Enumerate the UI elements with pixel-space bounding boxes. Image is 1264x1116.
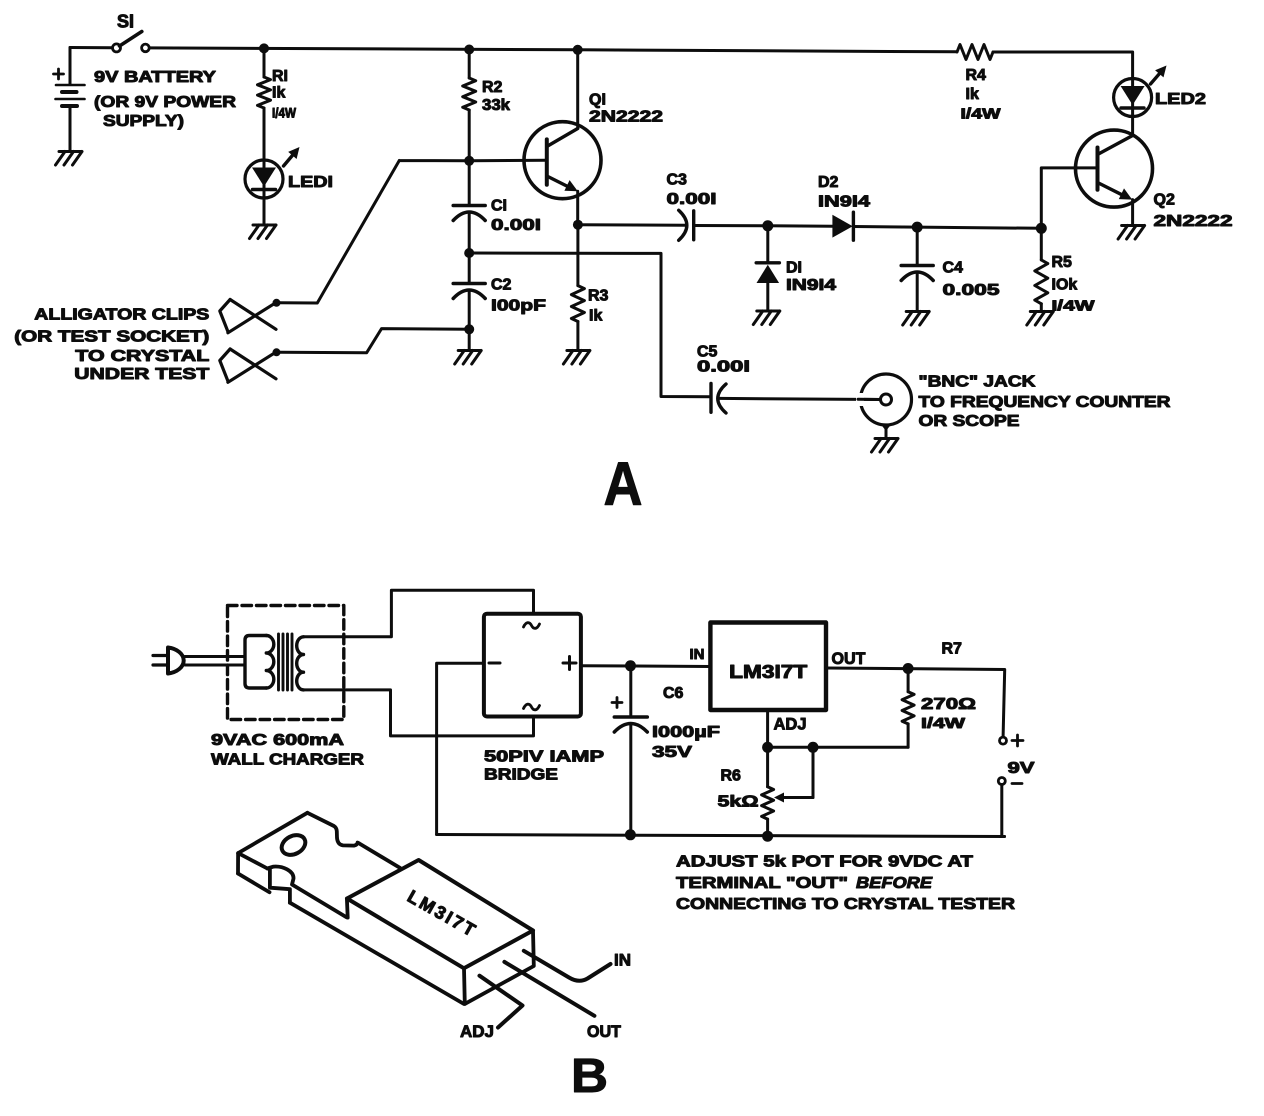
svg-text:Ik: Ik bbox=[966, 86, 979, 103]
LED2 emission arrow bbox=[1151, 66, 1167, 85]
svg-text:LEDI: LEDI bbox=[288, 174, 333, 191]
alligator clip 1 bbox=[220, 299, 281, 333]
bridge minus terminal bbox=[489, 662, 500, 665]
label alligator clips bbox=[14, 307, 209, 384]
wire LED2 to Q2 bbox=[1131, 117, 1134, 136]
label LED1 bbox=[288, 174, 333, 191]
svg-text:R4: R4 bbox=[966, 67, 987, 84]
capacitor C3 bbox=[679, 210, 694, 240]
wire clip2 to C2 node bbox=[280, 329, 470, 353]
ground (Q2) bbox=[1118, 226, 1145, 240]
junction (wiper node) bbox=[808, 742, 819, 753]
wire bottom rail bbox=[437, 835, 1005, 837]
switch S1 bbox=[113, 32, 150, 52]
bridge AC symbol bottom bbox=[524, 704, 540, 710]
capacitor C6 bbox=[614, 666, 647, 834]
transformer primary winding bbox=[245, 636, 274, 689]
svg-text:I00pF: I00pF bbox=[491, 298, 546, 315]
svg-text:UNDER TEST: UNDER TEST bbox=[74, 366, 209, 383]
package lead OUT bbox=[504, 962, 594, 1016]
wire Q2 base bbox=[1041, 168, 1097, 228]
package body bbox=[347, 860, 534, 1004]
label ADJ bbox=[774, 715, 807, 734]
wire secondary top to bridge bbox=[304, 590, 534, 637]
potentiometer R6 bbox=[762, 747, 774, 836]
svg-text:TO FREQUENCY COUNTER: TO FREQUENCY COUNTER bbox=[919, 394, 1172, 411]
ground (C2) bbox=[455, 351, 482, 365]
svg-text:9VAC 600mA: 9VAC 600mA bbox=[211, 732, 345, 749]
svg-text:"BNC" JACK: "BNC" JACK bbox=[919, 374, 1037, 391]
svg-text:WALL CHARGER: WALL CHARGER bbox=[211, 752, 365, 769]
wire base node to Q1 base bbox=[469, 159, 547, 163]
svg-text:TO CRYSTAL: TO CRYSTAL bbox=[75, 348, 209, 365]
wire D2 to C4 node bbox=[853, 225, 917, 229]
ground (C4) bbox=[903, 312, 930, 326]
capacitor C2 bbox=[453, 253, 485, 329]
label LED2 bbox=[1155, 91, 1206, 108]
label D2 bbox=[818, 174, 870, 211]
svg-text:CONNECTING TO CRYSTAL TESTER: CONNECTING TO CRYSTAL TESTER bbox=[676, 896, 1016, 913]
ground (BNC) bbox=[872, 439, 899, 453]
resistor R2 bbox=[463, 78, 476, 110]
wire C3 to D1 node bbox=[694, 224, 768, 227]
svg-text:Ik: Ik bbox=[272, 85, 285, 102]
wire cord bbox=[185, 657, 245, 666]
svg-text:CI: CI bbox=[491, 198, 507, 215]
wire battery to switch bbox=[70, 46, 112, 49]
package lead ADJ bbox=[480, 976, 523, 1028]
dashed enclosure (wall charger) bbox=[228, 606, 344, 720]
svg-text:(OR TEST SOCKET): (OR TEST SOCKET) bbox=[14, 329, 209, 346]
svg-text:OUT: OUT bbox=[587, 1022, 622, 1041]
junction (C4 node) bbox=[912, 222, 923, 233]
package tab outline bbox=[238, 813, 464, 1004]
resistor R1 bbox=[258, 77, 271, 108]
svg-text:SI: SI bbox=[117, 12, 134, 32]
wire LED1 to ground bbox=[263, 198, 266, 225]
battery plus label bbox=[54, 69, 64, 79]
svg-text:0.00I: 0.00I bbox=[491, 217, 541, 234]
svg-text:I/4W: I/4W bbox=[921, 715, 966, 732]
label C5 bbox=[697, 344, 750, 376]
ground (R5) bbox=[1027, 312, 1054, 326]
label C6 bbox=[652, 685, 720, 761]
capacitor C5 bbox=[711, 384, 726, 414]
svg-text:IN9I4: IN9I4 bbox=[818, 194, 870, 211]
label section B bbox=[571, 1050, 608, 1103]
LED LED2 bbox=[1114, 79, 1152, 117]
bridge AC symbol top bbox=[524, 623, 540, 629]
capacitor C1 bbox=[453, 161, 485, 253]
label R2 bbox=[482, 79, 510, 114]
resistor R7 bbox=[902, 669, 914, 748]
wire C5 to BNC bbox=[719, 398, 881, 399]
svg-text:IN: IN bbox=[690, 646, 705, 663]
resistor R5 bbox=[1035, 228, 1048, 311]
LED LED1 bbox=[245, 160, 283, 198]
svg-text:OR SCOPE: OR SCOPE bbox=[919, 413, 1020, 430]
junction (R7 top) bbox=[903, 663, 914, 674]
svg-text:LED2: LED2 bbox=[1155, 91, 1206, 108]
svg-text:270Ω: 270Ω bbox=[921, 696, 976, 713]
svg-text:0.00I: 0.00I bbox=[697, 359, 750, 376]
label Q2 bbox=[1154, 192, 1233, 231]
resistor R3 bbox=[571, 225, 584, 350]
junction (Q1 emitter node) bbox=[573, 220, 583, 230]
capacitor C4 bbox=[901, 227, 933, 311]
svg-text:DI: DI bbox=[786, 260, 802, 277]
ground (R3) bbox=[563, 351, 590, 365]
alligator clip 2 bbox=[220, 348, 281, 382]
svg-text:SUPPLY): SUPPLY) bbox=[103, 113, 184, 130]
label LM317T bbox=[729, 662, 807, 682]
diode D2 bbox=[832, 212, 853, 240]
wire R1 top bbox=[263, 48, 266, 77]
svg-text:RI: RI bbox=[272, 68, 288, 85]
svg-text:OUT: OUT bbox=[832, 649, 867, 668]
wire OUT bbox=[826, 668, 1005, 741]
ground (battery) bbox=[56, 152, 83, 166]
label R6 bbox=[718, 768, 759, 811]
wire ADJ line bbox=[768, 746, 909, 749]
svg-text:ALLIGATOR CLIPS: ALLIGATOR CLIPS bbox=[34, 307, 209, 324]
junction (R6 bottom) bbox=[762, 831, 773, 842]
ground (LED1) bbox=[250, 225, 277, 239]
wire bridge plus to IN bbox=[581, 664, 711, 668]
wire Q2 emitter to ground bbox=[1131, 200, 1134, 225]
label BNC bbox=[919, 374, 1172, 431]
junction (C1-C2 node) bbox=[464, 248, 474, 258]
junction (Q1 collector top) bbox=[573, 45, 583, 55]
svg-text:TERMINAL "OUT": TERMINAL "OUT" bbox=[676, 875, 848, 892]
terminal minus bbox=[998, 778, 1005, 785]
package lead IN bbox=[524, 951, 611, 981]
svg-text:A: A bbox=[604, 450, 643, 518]
ground (D1) bbox=[753, 311, 780, 325]
svg-text:0.005: 0.005 bbox=[943, 282, 1000, 299]
BNC jack J1 bbox=[856, 374, 912, 438]
R6 wiper bbox=[774, 747, 813, 802]
svg-text:35V: 35V bbox=[652, 744, 692, 761]
junction (D1 node) bbox=[762, 220, 773, 231]
label R3 bbox=[588, 288, 609, 325]
wire ADJ bbox=[766, 710, 769, 747]
label S1 bbox=[117, 12, 134, 32]
svg-text:C6: C6 bbox=[663, 685, 684, 702]
svg-text:D2: D2 bbox=[818, 174, 839, 191]
wire R2 to base node bbox=[468, 110, 471, 161]
svg-text:9V: 9V bbox=[1008, 760, 1035, 777]
label wall charger bbox=[211, 732, 365, 769]
LED1 emission arrow bbox=[284, 147, 300, 166]
wire C2 to ground bbox=[468, 329, 471, 350]
junction (R5 node) bbox=[1036, 223, 1047, 234]
svg-text:ADJ: ADJ bbox=[460, 1022, 494, 1041]
wire C4 node to R5 node bbox=[917, 227, 1041, 228]
wire secondary bottom to bridge bbox=[304, 690, 534, 736]
wire R1 to LED1 bbox=[263, 108, 266, 161]
label package OUT bbox=[587, 1022, 622, 1041]
svg-text:R6: R6 bbox=[721, 768, 742, 785]
transistor Q2 bbox=[1076, 130, 1153, 207]
label C3 bbox=[667, 172, 717, 209]
svg-text:IOk: IOk bbox=[1052, 277, 1078, 294]
wire R4 to LED2 bbox=[993, 52, 1133, 79]
svg-text:(OR 9V POWER: (OR 9V POWER bbox=[94, 94, 237, 111]
wire D1 node to D2 bbox=[768, 224, 833, 227]
label minus bbox=[1012, 782, 1022, 785]
wire minus to rail bbox=[1002, 785, 1005, 837]
svg-text:C3: C3 bbox=[667, 172, 688, 189]
svg-text:R7: R7 bbox=[942, 641, 963, 658]
bridge rectifier BR1 bbox=[484, 614, 581, 717]
svg-text:LM3I7T: LM3I7T bbox=[729, 662, 807, 682]
svg-text:I/4W: I/4W bbox=[961, 106, 1002, 123]
svg-text:2N2222: 2N2222 bbox=[589, 109, 663, 126]
label C2 bbox=[491, 277, 546, 315]
package tab notch bbox=[267, 867, 346, 918]
label bridge bbox=[484, 749, 604, 784]
note adjust bbox=[676, 854, 1016, 914]
diode D1 bbox=[756, 226, 779, 311]
label package IN bbox=[614, 951, 631, 970]
label IN bbox=[690, 646, 705, 663]
svg-text:B: B bbox=[571, 1050, 608, 1103]
svg-text:ADJUST 5k POT FOR 9VDC AT: ADJUST 5k POT FOR 9VDC AT bbox=[676, 854, 973, 871]
svg-text:50PIV IAMP: 50PIV IAMP bbox=[484, 749, 604, 766]
svg-text:33k: 33k bbox=[482, 97, 510, 114]
bridge plus terminal bbox=[563, 657, 576, 670]
label C4 bbox=[943, 260, 1000, 300]
resistor R4 bbox=[957, 45, 993, 60]
svg-text:IN: IN bbox=[614, 951, 631, 970]
wire top rail bbox=[150, 48, 958, 52]
svg-text:5kΩ: 5kΩ bbox=[718, 794, 759, 811]
transformer core bbox=[279, 634, 293, 690]
svg-text:I/4W: I/4W bbox=[272, 105, 297, 121]
svg-text:C2: C2 bbox=[491, 277, 512, 294]
label C1 bbox=[491, 198, 541, 235]
label plus bbox=[1012, 735, 1023, 746]
svg-text:2N2222: 2N2222 bbox=[1154, 213, 1233, 230]
svg-text:I/4W: I/4W bbox=[1052, 298, 1096, 315]
wire C1C2 node to C5 bbox=[469, 253, 711, 397]
label battery bbox=[94, 69, 237, 130]
svg-text:BRIDGE: BRIDGE bbox=[484, 767, 558, 784]
wire Q1 collector bbox=[576, 50, 579, 129]
junction (R2 top) bbox=[464, 45, 474, 55]
label R7 bbox=[942, 641, 963, 658]
label Q1 bbox=[589, 92, 663, 126]
label R7 value bbox=[921, 696, 976, 732]
label 9V bbox=[1008, 760, 1035, 777]
wire base to clip diagonal bbox=[280, 161, 470, 304]
junction (C6 bottom) bbox=[625, 829, 636, 840]
svg-text:I000µF: I000µF bbox=[652, 724, 720, 741]
svg-text:9V BATTERY: 9V BATTERY bbox=[94, 69, 216, 86]
junction (clip2 node) bbox=[464, 324, 474, 334]
svg-text:IN9I4: IN9I4 bbox=[786, 277, 836, 294]
transistor Q1 bbox=[524, 122, 601, 199]
junction (ADJ node) bbox=[762, 742, 773, 753]
wire emitter to C3 bbox=[578, 223, 686, 227]
label R1 bbox=[272, 68, 297, 121]
svg-text:0.00I: 0.00I bbox=[667, 191, 717, 208]
svg-text:C4: C4 bbox=[943, 260, 964, 277]
junction (base node) bbox=[464, 156, 474, 166]
C6 plus label bbox=[612, 698, 622, 708]
label OUT bbox=[832, 649, 867, 668]
wire R2 top bbox=[468, 50, 471, 79]
svg-text:BEFORE: BEFORE bbox=[856, 875, 934, 892]
label R4 bbox=[961, 67, 1002, 123]
transformer secondary winding bbox=[297, 637, 304, 690]
svg-text:Q2: Q2 bbox=[1154, 192, 1175, 209]
wire Q1 emitter bbox=[576, 191, 579, 224]
svg-text:R2: R2 bbox=[482, 79, 503, 96]
regulator U1 LM317T bbox=[710, 623, 826, 711]
label section A bbox=[604, 450, 643, 518]
svg-text:R3: R3 bbox=[588, 288, 609, 305]
svg-text:ADJ: ADJ bbox=[774, 715, 807, 734]
label package ADJ bbox=[460, 1022, 494, 1041]
junction (R1 top) bbox=[259, 43, 269, 53]
svg-text:R5: R5 bbox=[1052, 254, 1073, 271]
label LM317T package bbox=[404, 886, 481, 941]
label D1 bbox=[786, 260, 836, 295]
terminal plus bbox=[1000, 737, 1007, 744]
svg-text:Ik: Ik bbox=[589, 308, 602, 325]
label R5 bbox=[1052, 254, 1096, 315]
svg-text:QI: QI bbox=[589, 92, 606, 109]
AC plug bbox=[153, 648, 184, 674]
wire bridge minus bbox=[437, 663, 484, 834]
junction (C6 top) bbox=[625, 660, 636, 671]
package tab hole bbox=[278, 831, 309, 859]
battery B1 (9V) bbox=[56, 48, 85, 152]
